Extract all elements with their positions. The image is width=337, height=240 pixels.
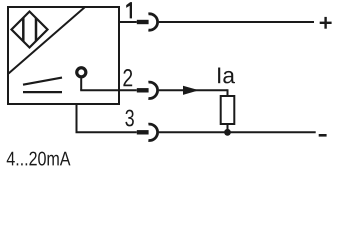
circle stem [80,78,82,90]
diamond inner bar left [22,18,25,42]
plus terminal [320,22,332,24]
connector 1 bar [137,20,149,24]
analog ramp symbol bottom line [23,91,62,93]
wire 3 horizontal [76,131,137,133]
connector 3 arc [148,124,157,140]
connector 3 bar [137,130,149,134]
wire 2 to arrow [159,89,228,91]
output circle [77,68,86,77]
connector 1 arc [148,14,157,30]
connector 2 bar [137,88,149,92]
diamond inner bar right [35,18,38,41]
minus terminal [319,134,327,137]
label pin 3 [125,110,133,127]
connector 2 arc [148,82,157,98]
wire 1 to plus [159,21,314,23]
current arrow [183,86,199,95]
label 4...20mA [7,152,71,166]
inductive sensor diamond [12,12,48,48]
wire 3 drop from box [76,104,78,132]
diagonal divider [9,7,86,74]
wire 1 from box [119,21,137,23]
junction dot [224,129,231,136]
analog ramp symbol top line [23,78,62,85]
wire 3 to minus [159,131,316,133]
label Ia [218,68,235,84]
wire 2 inside box [80,89,137,91]
wire 2 drop to resistor [227,89,229,96]
sensor body box [8,7,119,104]
label pin 1 [126,2,132,18]
label pin 2 [123,69,132,86]
load resistor [221,96,235,124]
resistor to wire 3 [227,124,229,132]
